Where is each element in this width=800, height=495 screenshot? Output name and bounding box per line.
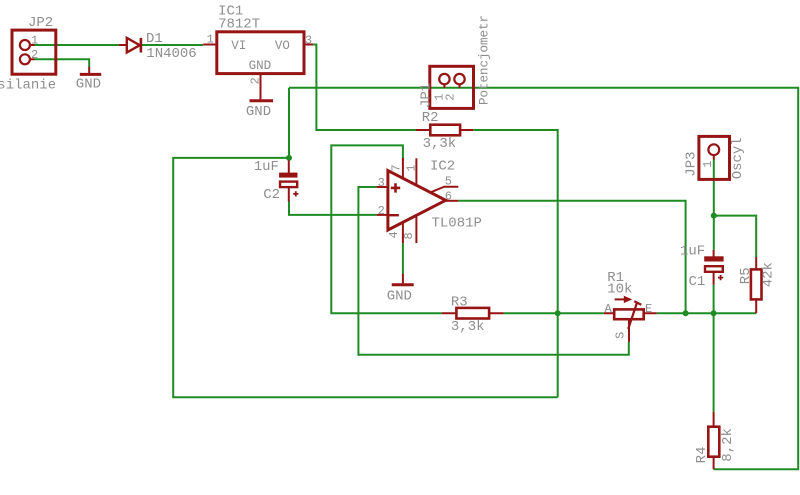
- svg-text:1uF: 1uF: [254, 159, 279, 175]
- svg-text:C1: C1: [689, 274, 706, 290]
- connector JP2: [12, 30, 56, 74]
- svg-text:1: 1: [31, 33, 38, 47]
- wire JP3 pin down to C1 top: [713, 159, 715, 250]
- svg-text:GND: GND: [387, 289, 412, 305]
- svg-text:JP3: JP3: [683, 151, 699, 176]
- svg-text:8,2k: 8,2k: [720, 428, 736, 462]
- svg-text:TL081P: TL081P: [432, 215, 482, 231]
- svg-text:2: 2: [249, 77, 263, 84]
- svg-text:GND: GND: [246, 104, 271, 120]
- wire R2 right down to bottom rail: [473, 130, 558, 397]
- svg-text:R3: R3: [451, 295, 468, 311]
- ground symbol GND3: [392, 274, 414, 285]
- ground symbol GND2: [250, 99, 274, 102]
- svg-text:2: 2: [31, 48, 38, 62]
- junction dot C2 top: [286, 155, 292, 161]
- junction dot R2/R3: [555, 310, 561, 316]
- resistor R5: [751, 257, 762, 313]
- svg-text:S: S: [613, 332, 627, 339]
- wire JP3 junction to R5 top: [714, 216, 756, 257]
- svg-text:E: E: [645, 302, 652, 316]
- svg-text:R2: R2: [422, 110, 439, 126]
- svg-text:1uF: 1uF: [680, 244, 705, 260]
- regulator IC1: [203, 32, 313, 100]
- svg-text:JP2: JP2: [28, 15, 53, 31]
- svg-text:3,3k: 3,3k: [423, 136, 457, 152]
- svg-text:5: 5: [445, 175, 452, 189]
- svg-text:8: 8: [402, 232, 416, 239]
- junction dot pin6/pot E: [683, 310, 689, 316]
- svg-text:1: 1: [701, 161, 715, 168]
- svg-text:zasilanie: zasilanie: [0, 77, 56, 93]
- svg-text:D1: D1: [146, 31, 163, 47]
- junction dot JP3/C1/R5: [711, 213, 717, 219]
- svg-text:VO: VO: [275, 39, 290, 53]
- svg-text:GND: GND: [76, 77, 101, 93]
- svg-text:IC2: IC2: [430, 159, 455, 175]
- svg-text:VI: VI: [231, 39, 246, 53]
- wire C1 bottom down to R4 top: [713, 285, 715, 412]
- wire JP2 pin1 to D1 anode: [34, 44, 118, 46]
- wire op-amp pin3 net down to pot S: [358, 187, 628, 355]
- wire top long rail right edge down to R4 bottom: [289, 88, 798, 470]
- svg-text:A: A: [605, 302, 613, 316]
- wire D1 cathode to IC1 pin1: [142, 44, 203, 46]
- wire R3 right to pot A: [504, 312, 604, 314]
- svg-text:Oscyl: Oscyl: [730, 137, 746, 179]
- wire IC1 pin3 to R2 left: [313, 45, 416, 131]
- wire C2 bottom to op-amp pin2: [289, 202, 377, 215]
- svg-text:1: 1: [405, 164, 419, 171]
- svg-text:4: 4: [387, 231, 401, 238]
- capacitor C1: [704, 250, 723, 285]
- svg-text:2: 2: [444, 93, 458, 100]
- resistor R2: [416, 125, 474, 136]
- op-amp IC2: [377, 158, 459, 243]
- svg-text:10k: 10k: [607, 281, 632, 297]
- svg-text:42k: 42k: [760, 262, 776, 287]
- capacitor C2: [279, 160, 298, 201]
- svg-text:3: 3: [305, 34, 312, 48]
- wire pot E to R5 bottom: [657, 312, 757, 314]
- svg-text:Potencjometr: Potencjometr: [478, 15, 492, 105]
- svg-text:R5: R5: [738, 267, 754, 284]
- wire C2 junction left down and across bottom: [173, 158, 558, 397]
- ground symbol GND1: [80, 67, 101, 75]
- svg-text:3: 3: [378, 176, 385, 190]
- wire op-amp pin6 output to junction: [458, 201, 685, 313]
- svg-text:3,3k: 3,3k: [451, 319, 485, 335]
- svg-text:R4: R4: [694, 446, 710, 463]
- wire op-amp pin7 net down to R3 left: [331, 145, 442, 313]
- connector JP1: [430, 66, 474, 108]
- svg-text:2: 2: [378, 204, 385, 218]
- wire op-amp pin4 to GND: [402, 243, 404, 273]
- svg-text:7: 7: [390, 164, 404, 171]
- connector JP3: [699, 136, 730, 179]
- svg-text:C2: C2: [263, 187, 280, 203]
- diode D1: [119, 38, 141, 53]
- svg-text:6: 6: [445, 189, 452, 203]
- svg-text:1: 1: [207, 33, 214, 47]
- svg-text:7812T: 7812T: [218, 17, 260, 33]
- potentiometer R1: [604, 296, 657, 342]
- resistor R4: [708, 412, 719, 470]
- junction dot C1 bottom: [711, 310, 717, 316]
- svg-text:1N4006: 1N4006: [146, 46, 196, 62]
- resistor R3: [442, 308, 504, 319]
- wire top rail down to C2 junction: [288, 88, 290, 158]
- wire JP2 pin2 to GND: [34, 59, 89, 67]
- svg-text:GND: GND: [249, 59, 272, 73]
